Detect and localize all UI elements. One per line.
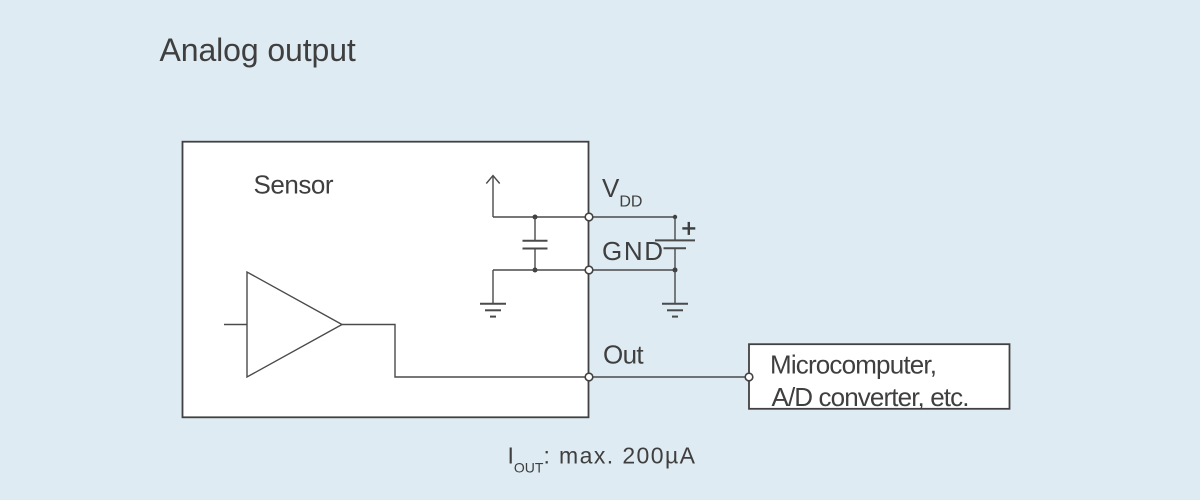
battery B1: [655, 217, 695, 270]
wire battery to external ground: [674, 270, 676, 303]
junction dot GND-battery: [673, 268, 678, 273]
svg-text:VDD: VDD: [602, 173, 642, 211]
ground internal: [480, 304, 506, 317]
svg-text:Microcomputer,: Microcomputer,: [770, 350, 937, 380]
wire amp output to Out terminal: [342, 325, 589, 378]
junction dot Vdd-cap: [533, 215, 538, 220]
junction dot Vdd-battery: [673, 215, 677, 219]
terminal microcomputer input: [745, 373, 753, 381]
op-amp A1: [247, 272, 342, 377]
wire down to internal ground: [492, 270, 494, 303]
svg-text:A/D converter, etc.: A/D converter, etc.: [772, 382, 970, 412]
wire input stub: [224, 324, 247, 326]
microcomputer box: [749, 344, 1010, 409]
wire GND external: [589, 269, 675, 271]
junction dot cap-GND: [533, 268, 538, 273]
svg-text:GND: GND: [602, 236, 663, 266]
capacitor C1: [523, 217, 548, 270]
svg-text:Sensor: Sensor: [254, 169, 334, 199]
ground external: [662, 304, 688, 317]
terminal Out: [585, 373, 593, 381]
wire Vdd internal: [493, 216, 589, 218]
wire GND internal: [493, 269, 589, 271]
terminal Vdd: [585, 213, 593, 221]
wire Vdd external: [589, 216, 675, 218]
sensor box: [183, 142, 589, 418]
plus sign: [682, 222, 695, 235]
power arrow Vdd supply: [486, 176, 499, 217]
svg-text:IOUT: max. 200µA: IOUT: max. 200µA: [508, 443, 696, 476]
wire Out external: [589, 376, 749, 378]
terminal GND: [585, 266, 593, 274]
svg-text:Analog output: Analog output: [160, 32, 356, 68]
svg-text:Out: Out: [603, 339, 644, 369]
